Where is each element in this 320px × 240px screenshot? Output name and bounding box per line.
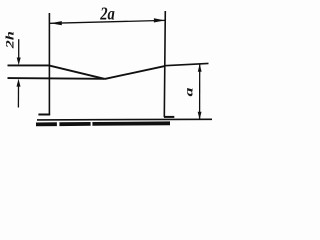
2h dimension upper leader shaft (18, 39, 20, 58)
svg-text:2h: 2h (3, 31, 17, 49)
svg-text:a: a (181, 87, 195, 96)
top-left extension line (strip top level) (8, 64, 50, 66)
ground line thin (37, 118, 212, 121)
ground line thick hatched band (36, 123, 170, 124)
sloped strip right half (105, 66, 165, 79)
a dimension line (199, 65, 201, 120)
arrowhead 2h down (17, 58, 21, 66)
left support wall / extension line (48, 13, 50, 114)
arrowhead a down (198, 112, 202, 120)
arrowhead 2a left (50, 21, 62, 25)
sloped strip left half (49, 66, 104, 79)
arrowhead 2a right (154, 18, 165, 22)
right support wall / extension line (164, 11, 165, 117)
dimension line 2a (50, 20, 165, 23)
right foot of right support (164, 116, 174, 118)
arrowhead a up (198, 64, 202, 72)
svg-text:2a: 2a (99, 4, 114, 24)
left foot of left support (38, 114, 50, 116)
2h dimension lower leader shaft (17, 86, 19, 107)
lower-left extension line (vertex level) (8, 77, 105, 80)
arrowhead 2h up (17, 79, 21, 87)
right extension line (top of right wall level) (165, 63, 209, 65)
